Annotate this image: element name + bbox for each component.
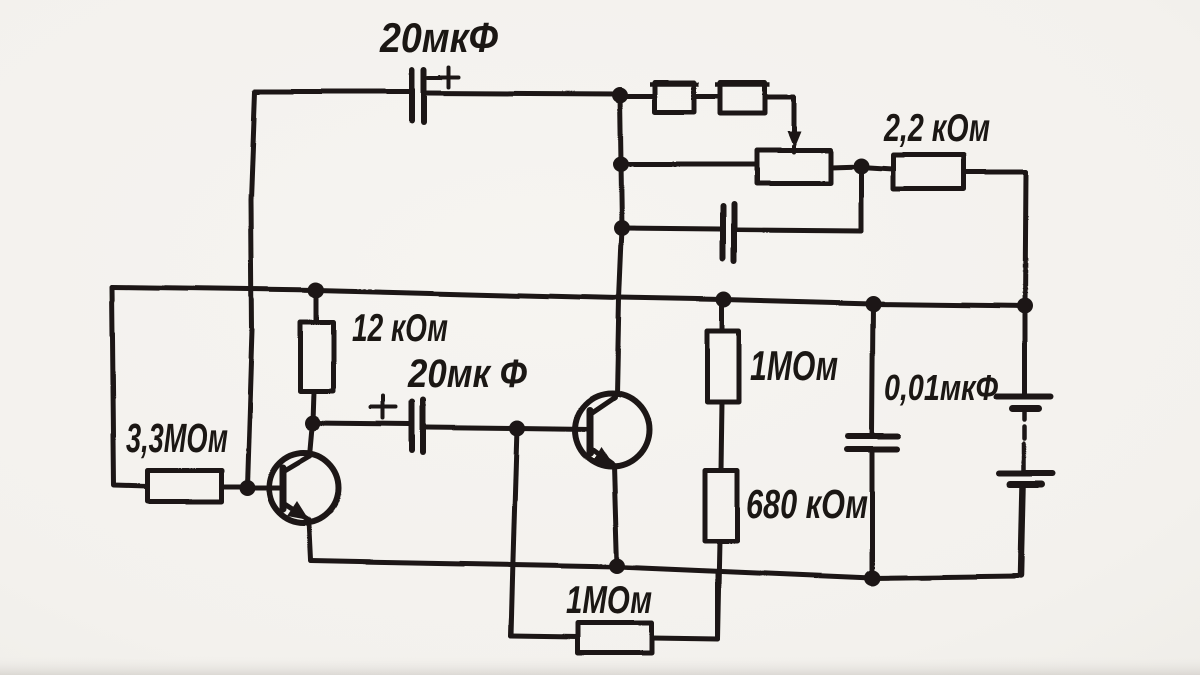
wire from R2 to wiper arrow corner — [765, 97, 794, 133]
node junction dot bus at 12кОм — [308, 282, 324, 298]
polarity mark + of C1 — [428, 67, 459, 87]
transistor T1 collector stroke — [283, 456, 310, 472]
node junction dot split — [509, 420, 525, 436]
wire T2 emitter down to bottom bus — [614, 466, 617, 566]
svg-text:1МОм: 1МОм — [750, 342, 838, 389]
svg-text:20мкФ: 20мкФ — [379, 14, 498, 61]
wire C4 top lead — [872, 304, 873, 433]
node junction dot right rail on bus — [1017, 298, 1033, 314]
wire C2 right lead — [737, 230, 861, 231]
wire base lead into T1 — [247, 486, 283, 491]
svg-text:12 кОм: 12 кОм — [352, 307, 448, 350]
svg-text:2,2 кОм: 2,2 кОм — [883, 107, 990, 150]
wire T1 collector up to cap node — [310, 422, 313, 456]
svg-text:680 кОм: 680 кОм — [746, 481, 868, 527]
wiper arrow of potentiometer RP1 — [787, 131, 801, 148]
potentiometer RP1 body — [756, 150, 830, 183]
node junction dot x=622 y=228 — [614, 220, 630, 236]
wire node to R3 — [861, 167, 893, 169]
node junction dot at top rail x=620 — [612, 87, 628, 103]
svg-text:20мк Ф: 20мк Ф — [407, 352, 528, 396]
node junction dot right of RP1 — [853, 158, 869, 174]
wire between R1 and R2 — [694, 94, 720, 99]
resistor R5 12кОм — [300, 322, 333, 391]
wire vertical divider chain x~620 down through bus to T2 collector — [617, 95, 622, 394]
transistor T2 emitter stroke — [590, 448, 612, 464]
wire C3 left lead — [313, 423, 409, 424]
polarity mark + of C3 — [371, 396, 396, 418]
node junction dot T1 collector — [305, 415, 321, 431]
wire battery bottom lead to bus — [1021, 487, 1023, 575]
battery GB1 top short plate — [1013, 406, 1039, 413]
wire right rail vertical down to battery — [1025, 172, 1026, 394]
transistor T1 base bar — [280, 468, 287, 509]
resistor R4 3,3МОм — [148, 471, 221, 502]
node junction dot T2 emitter at bus — [609, 558, 625, 574]
battery GB1 top long plate — [997, 394, 1051, 400]
node junction dot bus at 1МОм — [716, 292, 732, 308]
transistor T2 emitter arrowhead — [592, 447, 613, 465]
wire C3 right lead — [426, 427, 517, 428]
wire top rail right segment — [427, 93, 620, 94]
wire 1МОм top lead — [720, 300, 725, 331]
transistor T2 body circle — [575, 393, 649, 467]
wire right lead of RP1 — [830, 166, 861, 167]
wire from node to resistor box R1 — [620, 94, 655, 99]
wire R8 bottom lead through bus to bottom loop — [718, 541, 720, 639]
wire node down to bottom loop — [511, 428, 517, 636]
battery GB1 stub above bottom cell — [1022, 456, 1027, 470]
battery GB1 stub below top cell — [1023, 412, 1028, 420]
battery GB1 dashed middle — [1023, 427, 1028, 439]
wire R4 to base node — [221, 485, 247, 490]
wire R3 to right rail corner — [964, 170, 1026, 175]
transistor T2 collector stroke — [590, 397, 615, 414]
wire vertical from RP1 node down to C2 — [859, 167, 864, 231]
capacitor C4 0,01мкФ plates — [847, 436, 898, 449]
svg-text:0,01мкФ: 0,01мкФ — [884, 367, 998, 408]
capacitor C2 plates (feedback) — [723, 204, 734, 262]
resistor R8 680 кОм — [705, 470, 737, 541]
node junction dot bus at 0,01мкФ — [865, 296, 881, 312]
wire node to T2 base — [517, 428, 590, 429]
capacitor C1 20мкФ plates — [412, 70, 424, 122]
wire left tall vertical from top rail to base node — [247, 92, 255, 487]
wire C2 left lead — [622, 228, 720, 229]
wire 12кОм bottom lead — [313, 391, 314, 422]
capacitor C3 20мк Ф plates — [412, 400, 423, 452]
wire top rail left segment — [255, 90, 409, 95]
wire 12кОм top lead — [314, 290, 319, 322]
wire bottom loop right — [651, 572, 718, 639]
transistor T1 body circle — [269, 453, 339, 523]
transistor T1 emitter arrowhead — [287, 501, 309, 520]
transistor T1 emitter stroke — [283, 503, 309, 520]
wire T1 emitter down to bottom bus — [309, 520, 311, 560]
wire main middle bus — [112, 287, 1026, 306]
svg-text:1МОм: 1МОм — [566, 579, 652, 622]
wire bottom loop left and resistor R7 — [511, 636, 577, 637]
wire between R6 and R8 — [721, 402, 722, 470]
node junction dot base of T1 — [239, 480, 255, 496]
wire bottom bus — [311, 561, 1018, 578]
wire C4 bottom lead — [870, 452, 875, 578]
battery GB1 bottom short plate — [1010, 481, 1042, 488]
node junction dot C4 at bottom bus — [864, 570, 880, 586]
battery GB1 bottom long plate — [999, 470, 1053, 476]
wire left edge vertical — [112, 287, 148, 487]
resistor R7 1МОм (bottom) — [577, 623, 651, 653]
svg-text:3,3МОм: 3,3МОм — [126, 415, 228, 461]
resistor R2 (small box, top chain) — [720, 82, 765, 113]
resistor R3 2,2 кОм — [893, 155, 964, 189]
resistor R6 1МОм (vertical) — [707, 331, 739, 402]
transistor T2 base bar — [587, 410, 594, 453]
node junction dot x=621 y=163 — [613, 156, 629, 172]
wire left lead of RP1 — [621, 162, 756, 167]
resistor R1 (small box, top chain) — [655, 82, 694, 112]
